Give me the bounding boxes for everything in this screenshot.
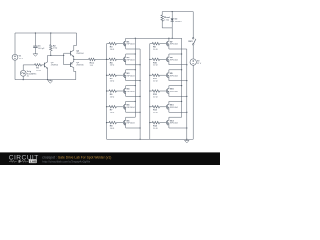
resistor R1: [35, 64, 45, 72]
transistor M3: [122, 70, 140, 81]
transistor M9: [166, 70, 187, 81]
wire load rail: [162, 11, 193, 13]
svg-text:10 Ω: 10 Ω: [110, 49, 115, 51]
resistor R12: [149, 90, 165, 99]
transistor Q3: [71, 59, 85, 79]
svg-text:100 µF: 100 µF: [38, 48, 45, 50]
svg-text:http://circuitlab.com/c/3nqap4: http://circuitlab.com/c/3nqap4z2gf6s: [42, 159, 90, 163]
svg-text:IRF1404: IRF1404: [127, 107, 136, 109]
resistor R14: [149, 121, 165, 130]
svg-text:12 V: 12 V: [197, 63, 202, 65]
svg-text:LAB: LAB: [30, 159, 37, 163]
transistor M5: [122, 101, 140, 112]
wire drain bus A2: [181, 38, 182, 117]
svg-text:2N3904: 2N3904: [51, 65, 59, 67]
svg-text:1 mΩ: 1 mΩ: [164, 19, 169, 21]
svg-text:IRF1404: IRF1404: [127, 123, 136, 125]
voltage source V2: [190, 59, 202, 139]
wire source bus B2: [186, 49, 187, 140]
svg-text:10 Ω: 10 Ω: [153, 128, 158, 130]
resistor Rext: [89, 58, 107, 67]
resistor R7: [106, 106, 122, 115]
ground below C1: [33, 53, 38, 57]
voltage source V1: [12, 33, 23, 80]
wire output to Rext: [74, 58, 89, 60]
svg-text:1 Ω: 1 Ω: [90, 65, 94, 67]
svg-text:IRF1404: IRF1404: [170, 75, 179, 77]
wire collector node: [48, 55, 64, 56]
switch SW1: [188, 12, 196, 59]
diode D2: [171, 11, 183, 28]
svg-text:10 Ω: 10 Ω: [110, 65, 115, 67]
resistor R8: [106, 121, 122, 130]
wire load node: [162, 28, 172, 38]
wire gate bottom rail: [107, 138, 194, 140]
transistor M4: [122, 86, 140, 97]
svg-text:1 kΩ: 1 kΩ: [53, 48, 58, 50]
voltage source Vsig: [20, 65, 36, 80]
resistor R9: [150, 42, 166, 51]
svg-text:12 V: 12 V: [19, 58, 24, 60]
svg-text:IRF1404: IRF1404: [127, 60, 136, 62]
resistor R6: [106, 90, 122, 99]
svg-text:IRF1404: IRF1404: [127, 91, 136, 93]
wire top supply rail: [15, 32, 77, 34]
footer bar: [0, 152, 220, 165]
svg-text:IRF1404: IRF1404: [170, 60, 179, 62]
resistor R11: [149, 74, 165, 83]
resistor R10: [149, 58, 165, 67]
node output: [73, 59, 74, 60]
svg-text:IRF1404: IRF1404: [170, 123, 179, 125]
svg-text:10 Ω: 10 Ω: [153, 65, 158, 67]
transistor Q2: [71, 33, 85, 59]
wire gate bus left: [106, 44, 107, 140]
transistor M1: [122, 38, 181, 49]
wire source bus B: [139, 49, 140, 140]
svg-text:IRF1404: IRF1404: [170, 44, 179, 46]
capacitor C1: [33, 32, 45, 52]
transistor M2: [122, 54, 140, 65]
transistor M10: [166, 86, 187, 97]
svg-text:2N3906: 2N3906: [76, 65, 84, 67]
svg-text:IRF1404: IRF1404: [170, 91, 179, 93]
wire gate bus right: [149, 44, 151, 140]
svg-text:10 Ω: 10 Ω: [110, 96, 115, 98]
svg-text:4): 4): [27, 76, 29, 78]
svg-text:IRF1404: IRF1404: [170, 107, 179, 109]
wire drain bus A: [135, 38, 136, 118]
svg-text:10 Ω: 10 Ω: [110, 128, 115, 130]
svg-text:10 Ω: 10 Ω: [110, 81, 115, 83]
svg-text:10 Ω: 10 Ω: [153, 112, 158, 114]
transistor M7: [166, 38, 187, 49]
svg-text:10 Ω: 10 Ω: [36, 70, 41, 72]
wire ground rail left: [15, 79, 76, 80]
svg-text:10 Ω: 10 Ω: [153, 49, 158, 51]
resistor R2: [50, 32, 58, 55]
wire base bracket: [63, 53, 71, 64]
resistor R3: [107, 42, 123, 51]
resistor R4: [106, 58, 122, 67]
svg-text:10 Ω: 10 Ω: [153, 81, 158, 83]
transistor Q1: [44, 55, 59, 79]
wire Vsig to R1: [23, 64, 34, 66]
ground main left: [48, 80, 53, 84]
svg-text:IRF1404: IRF1404: [127, 75, 136, 77]
svg-text:10 Ω: 10 Ω: [110, 112, 115, 114]
resistor R5: [106, 74, 122, 83]
node drain rail: [168, 38, 173, 39]
ground main right: [185, 139, 190, 143]
transistor M6: [122, 117, 140, 128]
transistor M8: [166, 54, 187, 65]
resistor Rload: [161, 12, 171, 28]
transistor M12: [166, 117, 187, 128]
svg-text:1N4007: 1N4007: [175, 21, 183, 23]
transistor M11: [166, 101, 187, 112]
svg-text:2N3904: 2N3904: [76, 53, 84, 55]
svg-text:10 Ω: 10 Ω: [153, 96, 158, 98]
resistor R13: [149, 106, 165, 115]
svg-text:IRF1404: IRF1404: [127, 44, 136, 46]
